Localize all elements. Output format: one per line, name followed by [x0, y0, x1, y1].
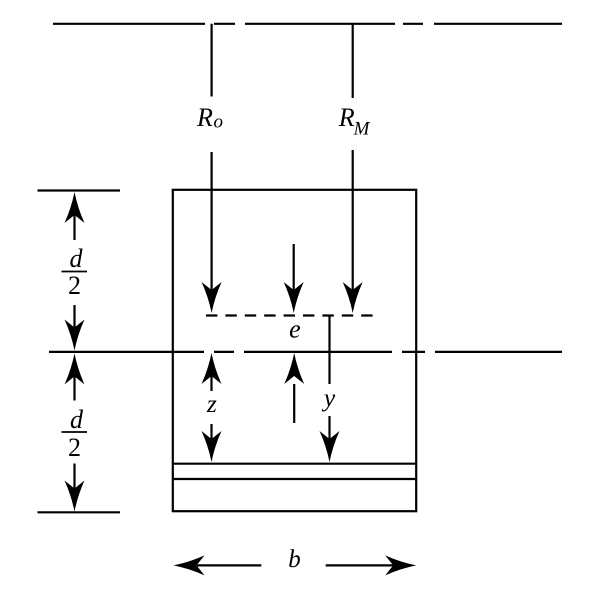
e dimension lower arrow shaft	[293, 384, 295, 423]
svg-text:d: d	[70, 405, 84, 434]
centerline (neutral axis) chain line	[49, 351, 562, 353]
force R_o arrowhead	[202, 282, 222, 313]
top reference chain line	[53, 23, 562, 25]
b dimension right arrow	[326, 555, 417, 575]
label R_M	[338, 103, 371, 140]
lower extension tick	[38, 511, 121, 513]
svg-text:2: 2	[68, 433, 81, 462]
force R_M arrow shaft	[352, 150, 354, 291]
svg-text:o: o	[214, 112, 224, 133]
d/2 lower dimension up-arrow	[65, 353, 85, 400]
d/2 lower dimension down-arrow	[65, 464, 85, 512]
section outline rectangle	[173, 190, 416, 511]
e dimension lower arrowhead	[284, 353, 304, 384]
d/2 lower label	[62, 405, 88, 462]
z dimension up-arrow	[202, 353, 222, 391]
svg-text:z: z	[206, 389, 217, 418]
svg-text:y: y	[321, 383, 336, 412]
d/2 upper dimension up-arrow	[65, 192, 85, 240]
force R_M arrowhead	[343, 282, 363, 313]
svg-text:R: R	[338, 103, 355, 132]
svg-text:e: e	[289, 315, 301, 344]
label R_o	[196, 103, 223, 133]
lower base-plate line	[173, 478, 416, 480]
y dimension line from dashed line	[328, 316, 330, 385]
d/2 upper label	[62, 244, 88, 300]
svg-text:M: M	[353, 118, 371, 139]
force R_o line upper segment	[211, 24, 213, 97]
svg-text:b: b	[288, 546, 301, 573]
svg-text:2: 2	[68, 271, 81, 300]
b dimension left arrow	[174, 555, 262, 575]
force R_o arrow shaft	[211, 152, 213, 291]
upper base-plate line	[173, 463, 416, 465]
z dimension down-arrow	[202, 424, 222, 462]
upper extension tick	[38, 189, 121, 191]
svg-text:R: R	[196, 103, 213, 132]
d/2 upper dimension down-arrow	[65, 305, 85, 351]
force R_M line upper segment	[352, 24, 354, 98]
resultant force arrow shaft	[293, 244, 295, 291]
dashed line of action	[206, 314, 376, 316]
y dimension down-arrow	[320, 416, 340, 462]
resultant force arrowhead	[284, 282, 304, 313]
svg-text:d: d	[70, 244, 84, 273]
